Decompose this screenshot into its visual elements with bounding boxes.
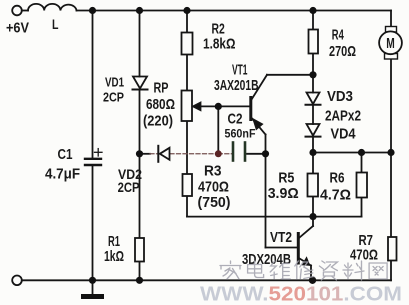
svg-text:R5: R5 bbox=[278, 170, 294, 187]
ground bbox=[92, 280, 94, 294]
svg-text:470Ω: 470Ω bbox=[198, 179, 229, 196]
wm char dian bbox=[248, 261, 264, 278]
node bottom C1 bbox=[89, 277, 96, 284]
svg-text:680Ω: 680Ω bbox=[146, 96, 175, 113]
node bottom VT2 bbox=[309, 277, 316, 284]
inductor L bbox=[28, 4, 77, 11]
watermark url bbox=[200, 284, 402, 305]
resistor R2 bbox=[182, 33, 193, 55]
potentiometer RP bbox=[182, 91, 193, 122]
svg-text:VD3: VD3 bbox=[327, 88, 353, 105]
svg-text:270Ω: 270Ω bbox=[329, 43, 356, 60]
svg-text:R3: R3 bbox=[204, 163, 222, 180]
node top rail C1 bbox=[89, 7, 96, 14]
wire VD1/R1 branch vertical bbox=[139, 11, 141, 77]
node bottom R1 bbox=[136, 277, 143, 284]
wire mid horizontal bbox=[140, 153, 151, 155]
svg-text:2APx2: 2APx2 bbox=[325, 108, 361, 125]
svg-text:4.7Ω: 4.7Ω bbox=[320, 187, 351, 204]
svg-text:1.8kΩ: 1.8kΩ bbox=[203, 36, 236, 53]
svg-text:1kΩ: 1kΩ bbox=[104, 248, 124, 265]
wire R6 branch bbox=[361, 153, 363, 173]
diode VD3 bbox=[307, 93, 320, 105]
node right motor bbox=[387, 149, 394, 156]
svg-text:R4: R4 bbox=[332, 27, 344, 44]
svg-text:2CP: 2CP bbox=[118, 179, 140, 195]
svg-text:M: M bbox=[386, 35, 395, 52]
svg-text:L: L bbox=[52, 16, 59, 32]
diode VD2 bbox=[160, 148, 170, 160]
capacitor C2 bbox=[232, 143, 235, 161]
resistor R7 bbox=[388, 237, 397, 261]
node mid VD1 bbox=[136, 150, 143, 157]
svg-text:3DX204B: 3DX204B bbox=[242, 251, 291, 268]
node top rail VD1 bbox=[136, 7, 143, 14]
transistor VT1 bbox=[249, 98, 252, 120]
svg-text:C1: C1 bbox=[58, 147, 73, 163]
svg-text:2CP: 2CP bbox=[103, 90, 124, 105]
diode VD1 bbox=[133, 77, 147, 89]
svg-text:(220): (220) bbox=[143, 113, 173, 130]
node right VD4 bbox=[309, 149, 316, 156]
svg-text:3.9Ω: 3.9Ω bbox=[268, 185, 299, 202]
RP wiper arrow bbox=[193, 103, 201, 111]
resistor R3 bbox=[183, 174, 193, 196]
node right R6 bbox=[358, 149, 365, 156]
wire motor branch vertical bbox=[390, 11, 392, 27]
wm char wei bbox=[270, 261, 290, 279]
node mid C2 bbox=[262, 150, 269, 157]
transistor VT2 bbox=[297, 234, 300, 264]
node R5 bottom bbox=[309, 213, 316, 220]
node mid wiper bbox=[215, 150, 222, 157]
wire VT1 emitter vertical bbox=[265, 135, 267, 248]
node top rail R4 bbox=[309, 7, 316, 14]
resistor R4 bbox=[309, 30, 319, 54]
svg-text:RP: RP bbox=[154, 80, 169, 97]
motor M bbox=[386, 27, 397, 33]
watermark chinese faux glyphs bbox=[220, 261, 387, 280]
svg-text:3AX201B: 3AX201B bbox=[214, 77, 259, 94]
svg-text:C2: C2 bbox=[228, 111, 243, 128]
svg-text:+6V: +6V bbox=[6, 20, 29, 37]
node top rail R2 bbox=[183, 7, 190, 14]
terminal +6V bbox=[12, 6, 22, 16]
wire R3-R6 bottom horizontal bbox=[187, 216, 362, 218]
wire VT2 base bbox=[266, 247, 298, 249]
wire R2/RP/R3 branch vertical bbox=[186, 11, 188, 33]
svg-text:R6: R6 bbox=[330, 170, 345, 187]
svg-text:VT1: VT1 bbox=[232, 62, 248, 79]
wm char wang bbox=[369, 263, 387, 279]
wm char jia bbox=[220, 261, 241, 279]
wire R4 branch vertical bbox=[312, 11, 314, 30]
wire wiper drop bbox=[217, 106, 219, 153]
svg-text:470Ω: 470Ω bbox=[350, 247, 378, 264]
node wiper bbox=[215, 103, 222, 110]
svg-text:VT2: VT2 bbox=[270, 229, 292, 246]
wire C1 branch vertical bbox=[92, 11, 94, 158]
wm char liao bbox=[343, 261, 364, 280]
capacitor C1 bbox=[85, 158, 101, 160]
svg-text:560nF: 560nF bbox=[225, 128, 256, 140]
svg-text:VD4: VD4 bbox=[331, 126, 357, 143]
node VT1 collector bbox=[309, 71, 316, 78]
wire bottom rail bbox=[22, 279, 391, 281]
diode VD4 bbox=[307, 124, 320, 136]
resistor R1 bbox=[135, 238, 144, 262]
wm char xiu bbox=[295, 261, 314, 279]
resistor R6 bbox=[357, 173, 368, 198]
wire bbox=[22, 10, 28, 12]
resistor R5 bbox=[308, 174, 319, 197]
svg-text:WWW.520101.COM: WWW.520101.COM bbox=[200, 284, 402, 305]
svg-text:4.7μF: 4.7μF bbox=[45, 167, 80, 183]
wire right horizontal bbox=[313, 152, 391, 154]
terminal bottom bbox=[12, 276, 22, 286]
wm char zi bbox=[319, 261, 337, 280]
wire RP wiper to VT1 base bbox=[199, 105, 250, 107]
wire top rail bbox=[77, 10, 392, 12]
svg-text:(750): (750) bbox=[198, 194, 231, 211]
svg-text:VD1: VD1 bbox=[105, 75, 124, 90]
